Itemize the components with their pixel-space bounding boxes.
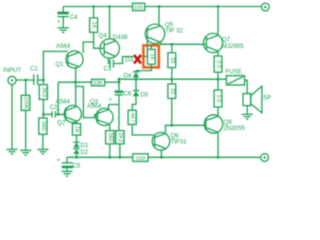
resistor 100 (top)	[133, 3, 145, 11]
node Q6 emitter on bottom rail	[160, 156, 163, 159]
wire Q8 emitter down	[217, 132, 219, 157]
wire Q1 emitter down to Q2	[75, 68, 77, 106]
wire feedback line	[58, 81, 91, 83]
node D2 on bottom rail	[75, 156, 78, 159]
svg-text:C5: C5	[73, 163, 81, 170]
wire Q2 collector down	[76, 122, 78, 123]
resistor 33K	[92, 79, 120, 86]
svg-text:4K7: 4K7	[129, 112, 135, 122]
svg-text:FUSE: FUSE	[226, 69, 242, 76]
resistor 560 (Q3)	[106, 131, 114, 158]
wire Q4 collector drop	[109, 7, 111, 40]
svg-text:D5: D5	[141, 92, 149, 99]
svg-text:100K: 100K	[23, 96, 29, 109]
svg-text:2K2: 2K2	[117, 132, 123, 142]
svg-text:TIP31: TIP31	[171, 139, 188, 146]
svg-text:+: +	[57, 157, 61, 164]
svg-text:3K3: 3K3	[40, 87, 46, 97]
node driver rail tap	[170, 43, 173, 46]
resistor 0.5 (lower)	[214, 79, 222, 115]
resistor 33 (lower)	[168, 79, 176, 125]
node 3K3 / C2 / 560 junction	[42, 113, 45, 116]
resistor 100K	[21, 80, 30, 150]
wire Q3 emitter to C6 column	[109, 105, 119, 110]
ground (560)	[37, 149, 48, 154]
svg-text:A564: A564	[56, 43, 71, 50]
node Q4 collector on supply bus	[108, 5, 111, 8]
svg-text:D2: D2	[81, 149, 89, 156]
node Q8 base junction	[170, 124, 173, 127]
wire Q2 right to Q3 base	[76, 87, 98, 118]
node Q8 emitter on bottom rail	[217, 156, 220, 159]
svg-text:2N3055: 2N3055	[224, 125, 246, 132]
svg-text:Q1: Q1	[56, 61, 65, 68]
terminal top right	[261, 3, 269, 11]
svg-text:INPUT: INPUT	[3, 67, 22, 74]
node 2K2 on bottom rail	[119, 156, 122, 159]
resistor 3K3	[39, 80, 47, 118]
svg-text:+: +	[109, 97, 113, 104]
node Q1 emitter / feedback junction	[74, 81, 77, 84]
wire Q6 collector up to Q8 base line	[166, 125, 206, 133]
svg-text:+: +	[57, 19, 61, 26]
svg-text:C1: C1	[30, 66, 38, 73]
wire after X to highlighted resistor	[142, 56, 147, 58]
ground (speaker)	[242, 114, 253, 119]
wire input to C1	[16, 79, 33, 81]
wire C1 node up to Q1 base	[43, 51, 67, 80]
node Q7 collector on supply bus	[217, 5, 220, 8]
svg-text:1K: 1K	[148, 53, 154, 60]
wire top supply bus	[63, 6, 261, 8]
svg-text:33K: 33K	[93, 81, 103, 87]
node 560 on bottom rail	[108, 156, 111, 159]
resistor 100 (bottom)	[133, 154, 148, 162]
node C1 / 3K3 junction	[42, 79, 45, 82]
ground (below C4)	[58, 28, 69, 33]
svg-text:Q4: Q4	[99, 32, 108, 39]
node D4/D5 on output rail	[135, 78, 138, 81]
node 0.5 resistors on output rail	[217, 78, 220, 81]
svg-text:1K: 1K	[74, 126, 80, 133]
wire Q3 collector down	[109, 125, 111, 131]
svg-text:Q2: Q2	[57, 120, 66, 127]
svg-text:D3: D3	[125, 57, 133, 64]
resistor 0.5 (upper)	[214, 56, 222, 79]
svg-text:560: 560	[40, 121, 46, 130]
svg-text:C6: C6	[124, 91, 132, 98]
svg-text:0.5: 0.5	[215, 60, 221, 68]
resistor 560 (input stage)	[39, 118, 47, 149]
resistor 1K (top)	[83, 7, 104, 54]
resistor 1K (Q2 collector)	[72, 124, 80, 143]
wire output rail	[119, 78, 226, 80]
node Q2 base junction	[57, 113, 60, 116]
terminal bottom right	[261, 154, 269, 162]
wire Q5 collector bus	[160, 43, 207, 45]
ground (100K)	[20, 150, 31, 155]
ground (input)	[6, 149, 17, 154]
capacitor C4	[57, 7, 69, 28]
node Q5 collector on supply bus	[158, 5, 161, 8]
wire input shield down	[11, 85, 13, 150]
node 33K / C6 junction	[118, 81, 121, 84]
svg-text:MJ2955: MJ2955	[222, 43, 244, 50]
red X mark	[134, 55, 141, 63]
ground (C5)	[61, 171, 72, 176]
node C6 on output rail	[118, 78, 121, 81]
svg-text:560: 560	[107, 133, 113, 142]
svg-text:100: 100	[136, 156, 145, 162]
wire Q1 collector up	[82, 52, 84, 54]
resistor 4K7	[128, 110, 154, 135]
resistor 33 (upper, Q5 bus to output rail)	[168, 44, 176, 79]
node resistor column on output rail	[170, 78, 173, 81]
svg-text:1K: 1K	[91, 22, 97, 29]
svg-text:C4: C4	[70, 14, 78, 21]
svg-text:A564: A564	[56, 99, 71, 106]
svg-text:33: 33	[169, 57, 175, 63]
svg-text:SP: SP	[263, 95, 271, 102]
node input / 100K tap	[24, 79, 27, 82]
svg-text:TIP 32: TIP 32	[165, 28, 183, 35]
resistor 2K2	[116, 131, 124, 158]
wire bottom output bus	[67, 156, 260, 158]
node 1K top on supply bus	[92, 5, 95, 8]
svg-text:D4: D4	[124, 73, 132, 80]
svg-text:33: 33	[169, 88, 175, 94]
svg-text:0.5: 0.5	[215, 95, 221, 103]
resistor (highlighted, Q5 emitter)	[136, 45, 155, 72]
wire Q4 emitter to C3	[108, 58, 110, 64]
wire Q6 emitter down	[161, 149, 163, 157]
svg-text:100: 100	[134, 5, 143, 11]
highlight box (orange)	[143, 45, 158, 67]
